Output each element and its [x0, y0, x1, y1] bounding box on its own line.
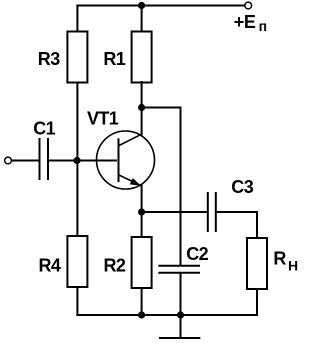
svg-text:R1: R1 — [103, 49, 125, 69]
resistor R2 — [104, 237, 152, 288]
svg-text:C2: C2 — [186, 244, 208, 264]
wire collector branch horizontal — [142, 107, 181, 109]
wire R2 bottom stem — [141, 287, 143, 316]
wire emitter branch to C3 — [142, 211, 207, 213]
svg-text:п: п — [259, 18, 267, 34]
resistor R4 — [39, 236, 88, 287]
junction dot rail at R2 — [138, 311, 145, 318]
svg-text:R3: R3 — [38, 49, 60, 69]
wire input to C1 — [11, 160, 38, 162]
junction dot emitter node — [138, 208, 145, 215]
svg-text:C1: C1 — [33, 119, 55, 139]
svg-text:+E: +E — [234, 12, 256, 32]
svg-text:R2: R2 — [104, 256, 126, 276]
junction dot top rail at R1 — [138, 2, 145, 9]
input terminal — [5, 157, 12, 164]
junction dot rail at C2 — [177, 311, 184, 318]
wire R4 bottom stem — [76, 286, 78, 316]
wire ground rail — [76, 314, 258, 316]
resistor R1 — [103, 32, 151, 83]
svg-text:C3: C3 — [231, 177, 253, 197]
capacitor C1 — [33, 119, 55, 181]
wire top supply rail — [76, 5, 244, 7]
wire R1 top stem — [141, 6, 143, 34]
wire collector branch vertical down to C2 — [180, 107, 182, 266]
capacitor C3 — [208, 177, 254, 232]
wire R3 top stem — [76, 5, 78, 34]
svg-text:R: R — [273, 248, 286, 268]
junction dot collector node — [138, 104, 145, 111]
capacitor C2 — [158, 244, 208, 273]
junction dot base node — [73, 157, 80, 164]
wire base column R3 to R4 — [76, 82, 78, 238]
resistor R3 — [38, 32, 88, 83]
label +Eп — [234, 12, 267, 34]
wire C1 to base — [49, 160, 117, 162]
resistor Rн — [247, 238, 298, 289]
wire Rn bottom stem — [256, 288, 258, 316]
terminal +Eп — [245, 2, 252, 9]
svg-text:VT1: VT1 — [87, 108, 119, 128]
wire C3 to Rn top — [217, 212, 257, 239]
transistor VT1 — [87, 108, 155, 189]
svg-text:R4: R4 — [39, 256, 61, 276]
wire R1 bottom to collector — [141, 81, 143, 136]
wire emitter column down through node to R2 — [141, 185, 143, 239]
svg-text:Н: Н — [288, 257, 298, 273]
wire C2 bottom to ground rail — [180, 273, 182, 316]
ground — [159, 315, 200, 338]
